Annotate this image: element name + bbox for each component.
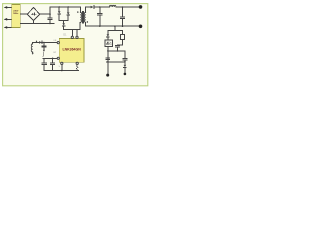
capacitor C9 bp	[42, 58, 46, 70]
pin circle S1	[61, 62, 63, 64]
jumper S2 zigzag	[76, 65, 78, 71]
node clamp C	[68, 6, 69, 7]
right branch down	[123, 51, 127, 62]
transformer T1 primary	[80, 7, 82, 22]
node cap bottom	[49, 23, 51, 25]
node mid50.9	[117, 50, 119, 52]
node fb cap	[43, 42, 44, 43]
node bridge+/cap	[49, 13, 51, 15]
filter block F1	[12, 4, 21, 27]
node S1 rail	[61, 70, 63, 72]
stub pin D2	[76, 30, 78, 37]
dot secondary polarity	[87, 21, 88, 22]
node out cap1 top	[99, 6, 101, 8]
secondary top wire	[86, 6, 91, 8]
wire y50.9	[108, 50, 125, 52]
schematic frame	[3, 4, 148, 86]
node right61	[124, 61, 126, 63]
source rail	[44, 70, 78, 72]
svg-text:LNK364GN: LNK364GN	[62, 48, 81, 52]
return rail	[86, 25, 141, 27]
FB wire	[33, 41, 58, 43]
node out top	[122, 6, 124, 8]
input arrow E	[4, 6, 12, 9]
node return cap	[99, 25, 101, 27]
zener VR1	[62, 20, 65, 29]
capacitor C1 bulk	[48, 7, 52, 23]
stub S1	[61, 65, 63, 71]
input arrow N	[4, 26, 12, 29]
diode D2 fb	[39, 41, 42, 44]
dot bias polarity	[36, 41, 37, 42]
pin circle BP	[57, 57, 59, 59]
clamp join bar	[59, 19, 68, 21]
capacitor C2 (clamp right leg)	[67, 7, 70, 20]
wire bridge +	[40, 13, 50, 15]
diode D1 (clamp left leg)	[58, 7, 61, 20]
node fb stub	[114, 25, 116, 27]
capacitor C11 small	[106, 58, 110, 60]
pin circle FB	[57, 42, 59, 44]
wire bridge bottom	[33, 21, 35, 24]
capacitor C5 second filter	[120, 7, 124, 26]
diode D3 output	[91, 6, 110, 9]
diag fbcap to bp	[42, 52, 45, 57]
node c5 bottom	[122, 25, 124, 27]
terminal out +	[139, 5, 143, 9]
bp wire	[43, 57, 57, 59]
transformer core	[82, 12, 83, 23]
bridge rectifier B1	[27, 8, 39, 21]
node bp cap2	[52, 58, 54, 60]
pin circle top2	[76, 36, 78, 38]
zener VR3 lower right	[124, 62, 127, 73]
capacitor C8 fb	[42, 42, 46, 52]
node opto/61.8	[107, 61, 109, 63]
inductor L1	[109, 5, 116, 7]
IC U1 body	[59, 38, 84, 62]
fb bar	[108, 30, 123, 32]
ground dot right	[124, 73, 127, 76]
node clamp D	[59, 6, 60, 7]
drain wire	[64, 22, 80, 29]
node opto/50.9	[107, 50, 109, 52]
dot primary polarity	[77, 11, 78, 12]
resistor R3	[121, 31, 125, 45]
zener VR2	[107, 31, 110, 40]
wire r3 to cap	[118, 44, 123, 46]
wire filter lower AC	[20, 22, 54, 24]
pin circle S2	[76, 62, 78, 64]
capacitor C10	[51, 58, 55, 70]
optocoupler IC2	[105, 40, 113, 47]
wire after inductor	[116, 6, 140, 8]
svg-text:50Hz: 50Hz	[13, 13, 19, 15]
stub pin D1	[71, 30, 73, 37]
opto lower wire	[107, 47, 109, 74]
terminal out -	[139, 25, 143, 29]
ground dot left	[106, 74, 109, 77]
wire filter to bridge	[20, 13, 27, 15]
capacitor C6	[116, 45, 120, 51]
fb stub	[114, 26, 116, 30]
wire y61.8	[107, 61, 125, 63]
pin circle top1	[71, 36, 73, 38]
transformer T1 secondary	[84, 7, 85, 26]
top DC rail	[50, 6, 80, 8]
bias winding L2	[31, 42, 34, 54]
capacitor C4 output	[98, 7, 102, 26]
input arrow L	[4, 18, 12, 21]
